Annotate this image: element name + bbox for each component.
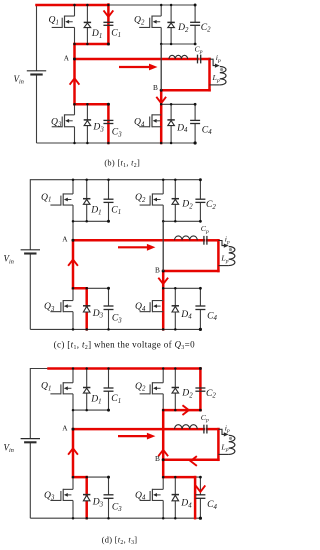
diode D2 (d) [172,388,179,394]
current path node-A vertical (b) [73,44,76,104]
current path drain line right (d) [163,476,195,479]
arrow tank bottom (d) [191,457,197,466]
magnetizing inductor Lp (d) [229,435,235,454]
wire Q4 drain (d) [162,477,164,489]
wire top rail (d) [30,368,200,370]
diode D1 (b) [84,22,91,27]
battery Vin (c) [21,250,40,254]
wire Q1 source line (b) [75,43,109,45]
current path through D3 (c) [85,288,88,329]
wire D3 branch (d) [86,477,88,518]
wire tank bottom (b) [161,89,209,91]
wire C4 bottom (c) [199,310,201,330]
wire tank bottom (c) [163,270,218,272]
svg-text:B: B [155,454,160,463]
wire Q2 source line (d) [163,409,200,411]
polarity dot of Lp (d) [229,437,232,440]
wire Q1 source (c) [72,205,74,221]
current path drain line (d) [73,476,87,479]
wire C1 bottom (d) [108,391,110,410]
wire D4 branch (c) [174,288,176,329]
current path node-A vertical (d) [72,429,75,477]
wire node-B vertical crossing (c) [162,221,164,271]
wire D1 branch (b) [86,5,88,44]
polarity dot of Lp (c) [229,248,232,251]
wire D1 branch (d) [86,369,88,411]
svg-text:A: A [62,424,68,433]
current arrow on resonant rail (b) [119,66,150,68]
magnetizing inductor Lp (c) [229,247,235,266]
current path through C4 (d) [194,477,197,518]
diode D1 (d) [83,388,90,394]
wire node-B vertical (d) [162,410,164,460]
current path tank bottom (c) [163,270,218,273]
wire C3 top (c) [108,288,110,306]
transistor Q3 (d) [50,489,73,501]
wire B to Q4 (c) [162,271,164,288]
wire resonant rail left (d) [73,428,204,430]
battery Vin (d) [21,439,40,443]
wire Q4 source (d) [162,500,164,518]
wire D2 branch (d) [174,369,176,411]
diode D3 (b) [84,120,91,126]
wire tank right edge (b) [209,59,211,90]
wire Q3 source (c) [72,312,74,330]
current path resonant rail (d) [73,428,204,431]
wire Q3 drain line (d) [73,476,109,478]
transistor Q1 (b) [52,16,75,29]
wire node-B vertical (b) [160,44,162,90]
resonant capacitor Cp (d) [204,425,207,434]
current arrow on resonant rail (c) [118,246,148,248]
wire C4 bottom (b) [194,124,196,144]
wire top rail right part (b) [108,4,195,6]
current path resonant rail (c) [73,239,204,242]
wire node-A vertical (b) [74,44,76,104]
capacitor C1 (c) [104,199,114,202]
resonant capacitor Cp (c) [204,236,207,245]
wire Vin top leg (d) [29,368,31,439]
transistor Q2 (c) [140,193,164,205]
transistor Q1 (d) [50,382,73,394]
capacitor C2 (c) [195,199,205,202]
capacitor C3 (b) [103,120,113,123]
wire resonant rail right (d) [207,428,219,430]
arrow into C4 (d) [196,486,205,492]
wire Q1 drain (b) [74,5,76,16]
capacitor C4 (c) [195,306,205,310]
resonant capacitor Cp (b) [198,55,201,64]
wire Q4 drain (b) [160,104,162,115]
wire C2 bottom (b) [194,25,196,44]
wire C1 bottom (c) [108,202,110,221]
wire Q1 drain (d) [72,369,74,383]
transistor Q4 (d) [140,489,164,501]
wire C2 top (c) [199,180,201,200]
current path through C2 (d) [199,369,202,411]
wire Q3 drain (c) [72,288,74,300]
wire C3 top (d) [108,477,110,495]
current path resonant rail (b) [75,58,198,61]
wire tank right edge (c) [217,240,219,271]
capacitor C2 (d) [195,388,205,391]
current path through D3 (d) [85,477,88,518]
wire Lp coil bottom lead (d) [218,453,228,455]
arrow toward node B (d) [159,450,168,456]
wire Q2 source line (b) [161,43,195,45]
wire Vin bottom leg (d) [29,442,31,518]
current path drain line (c) [73,287,87,290]
current path after Cp (b) [201,58,210,61]
wire Q3 source (d) [72,500,74,518]
arrow B into Q4 (b) [157,98,166,104]
arrow toward node A (b) [70,78,79,84]
wire C2 top (b) [194,5,196,22]
diode D4 (d) [172,495,179,501]
capacitor C2 (b) [190,22,200,25]
wire Q2 drain (d) [162,369,164,383]
wire C2 bottom (d) [199,391,201,410]
current path through Q4 (b) [160,90,163,143]
wire Lp coil bottom lead (b) [210,84,220,86]
wire D4 branch (b) [170,104,172,143]
svg-text:B: B [155,266,160,275]
wire Q2 source (b) [160,27,162,44]
current path tank right (c) [217,240,220,271]
wire Vin top leg (c) [29,179,31,250]
transistor Q1 (c) [50,193,73,205]
arrow toward node A (c) [69,260,78,266]
current path after Cp (c) [207,239,218,242]
wire Q1 source line (c) [73,220,109,222]
wire resonant rail right (b) [201,58,210,60]
wire Q2 drain (c) [162,180,164,194]
capacitor C3 (d) [104,495,114,499]
wire Q4 drain line (b) [161,103,195,105]
wire D4 branch (d) [174,477,176,518]
current path tank bottom (d) [163,459,218,462]
wire C4 top (d) [199,477,201,495]
polarity dot of Lp (b) [220,68,223,71]
current ip arrow (d) [218,429,224,434]
current path top rail (d) [49,367,201,370]
capacitor C4 (b) [190,120,200,123]
resonant inductor Lr (b) [169,55,188,59]
wire resonant rail left (c) [73,239,204,241]
wire D1 branch (c) [86,180,88,222]
wire Lp coil bottom lead (c) [218,265,228,267]
wire C2 top (d) [199,369,201,389]
wire Q2 drain (b) [160,5,162,16]
battery Vin (b) [27,71,46,75]
svg-text:A: A [64,53,70,62]
wire D3 branch (c) [86,288,88,329]
current path tank bottom (b) [161,89,209,92]
capacitor C1 (b) [103,22,113,25]
wire Q4 drain line (d) [163,476,200,478]
current ip arrow (c) [218,241,224,246]
junction dots (b) [73,4,76,7]
diode D2 (b) [167,22,174,27]
arrow on source line (d) [183,406,189,415]
arrow toward node A (d) [69,448,78,454]
transistor Q4 (c) [140,300,164,312]
wire node-A vertical (c) [72,221,74,288]
wire tank bottom (d) [163,459,218,461]
wire Vin top leg (b) [36,5,38,71]
wire bottom rail (b) [37,142,196,144]
magnetizing inductor Lp (b) [220,67,226,85]
junction dots (d) [72,367,75,370]
transistor Q2 (b) [139,16,161,29]
wire Q1 drain (c) [72,180,74,194]
current path source line (d) [163,409,200,412]
current arrow on resonant rail (d) [118,435,148,437]
transistor Q3 (b) [52,114,75,127]
svg-text:A: A [62,235,68,244]
current ip arrow (b) [210,59,216,65]
current path source line (b) [75,43,109,46]
current path B vertical (d) [162,410,165,460]
wire Q1 source (d) [72,394,74,410]
wire top rail (c) [30,179,200,181]
current path after Cp (d) [207,428,218,431]
transistor Q3 (c) [50,300,73,312]
diode D3 (c) [83,306,90,312]
resonant inductor Lr (d) [175,425,198,429]
diode D4 (b) [167,120,174,126]
wire C1 top (c) [108,180,110,200]
current path through C1 (b) [107,5,110,45]
transistor Q2 (d) [140,382,164,394]
wire resonant rail right (c) [207,239,219,241]
wire D2 branch (b) [170,5,172,44]
wire node-B vertical (c) [162,221,164,271]
wire node-A vertical (d) [72,410,74,477]
wire Q4 drain line (c) [163,287,200,289]
resonant inductor Lr (c) [175,236,198,240]
wire Q3 drain (b) [74,104,76,115]
wire node-B vertical crossing (b) [160,44,162,90]
wire C3 top (b) [107,104,109,120]
wire C4 top (b) [194,104,196,120]
wire Q4 source (b) [160,127,162,143]
wire C4 bottom (d) [199,498,201,518]
wire C2 bottom (c) [199,202,201,221]
wire C3 bottom (d) [108,498,110,518]
wire bottom rail (c) [30,328,201,330]
wire Vin bottom leg (c) [29,254,31,330]
wire C1 top (b) [107,5,109,22]
capacitor C3 (c) [104,306,114,310]
wire Q1 source line (d) [73,409,109,411]
wire B to Q4 (b) [160,90,162,104]
wire tank right edge (d) [217,429,219,460]
wire C1 top (d) [108,369,110,389]
current path B down (d) [162,460,165,477]
diode D4 (c) [172,306,179,312]
wire Q2 source line (c) [163,220,200,222]
wire Q3 drain (d) [72,477,74,489]
wire D2 branch (c) [174,180,176,222]
wire Q3 drain line (c) [73,287,109,289]
svg-text:B: B [153,83,158,92]
current path node-A vertical (c) [72,240,75,288]
wire C3 bottom (b) [107,124,109,144]
arrow B into Q4 (c) [159,278,168,284]
wire C3 bottom (c) [108,310,110,330]
junction dots (c) [72,178,75,181]
current path through C3 (b) [107,104,110,143]
arrow into C1 (b) [104,11,113,17]
transistor Q4 (b) [139,114,161,127]
current path drain line (b) [75,103,109,106]
diode D2 (c) [172,199,179,205]
diode D3 (d) [83,495,90,501]
diode D1 (c) [83,199,90,205]
wire C4 top (c) [199,288,201,306]
wire resonant rail left (b) [75,58,198,60]
capacitor C1 (d) [104,388,114,391]
capacitor C4 (d) [195,495,205,499]
current path tank right (d) [217,429,220,460]
wire Q4 drain (c) [162,288,164,300]
wire Q1 source (b) [74,27,76,44]
wire Q2 source (d) [162,394,164,410]
wire B to Q4 (d) [162,460,164,477]
current path top rail (b) [37,4,109,7]
wire top rail (b) [37,4,109,6]
wire Q2 source (c) [162,205,164,221]
current path tank right (b) [208,59,211,90]
wire Q3 drain line (b) [75,103,109,105]
wire Q3 source (b) [74,127,76,143]
wire bottom rail (d) [30,517,201,519]
wire Vin bottom leg (b) [36,75,38,144]
wire D3 branch (b) [86,104,88,143]
wire C1 bottom (b) [107,25,109,44]
current path through Q4 (c) [162,271,165,329]
wire Q4 source (c) [162,312,164,330]
